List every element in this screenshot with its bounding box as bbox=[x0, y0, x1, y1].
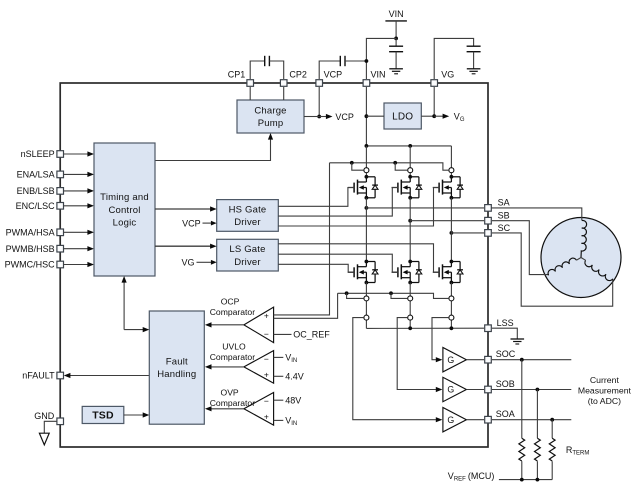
wire VCP pin down bbox=[317, 87, 321, 118]
block Timing and Control Logic bbox=[94, 143, 155, 276]
wire OC_REF bbox=[274, 330, 331, 340]
amplifier G (SOC) bbox=[443, 348, 467, 372]
wire ENA/LSA to timing bbox=[64, 172, 94, 177]
wire LS source column C bbox=[450, 283, 452, 329]
wire GND to ground bbox=[44, 421, 57, 433]
svg-text:VCP: VCP bbox=[324, 70, 343, 80]
pin ENC/LSC bbox=[16, 201, 64, 211]
svg-text:VIN: VIN bbox=[389, 9, 404, 19]
svg-text:OCP: OCP bbox=[221, 297, 240, 307]
transistor Q2 (HS B) bbox=[392, 175, 422, 200]
wire LS gate C bbox=[278, 244, 439, 272]
pin GND bbox=[34, 411, 63, 425]
wire LSS to ground bbox=[492, 328, 517, 339]
pin PWMB/HSB bbox=[6, 244, 64, 254]
label OVP Comparator bbox=[210, 388, 256, 409]
svg-text:ENC/LSC: ENC/LSC bbox=[16, 201, 56, 211]
node SB junction bbox=[408, 219, 412, 223]
wire LSS bus bbox=[366, 326, 484, 330]
terminal GHB bbox=[408, 168, 413, 173]
svg-text:TSD: TSD bbox=[92, 410, 114, 422]
svg-text:+: + bbox=[264, 369, 269, 379]
wire drain drop A bbox=[365, 146, 367, 177]
wire SOC out bbox=[492, 358, 571, 362]
svg-text:SOC: SOC bbox=[496, 349, 516, 359]
capacitor C-VG bbox=[467, 46, 481, 69]
label RTERM bbox=[566, 445, 590, 457]
wire amp SOC to pin bbox=[466, 359, 484, 361]
IC boundary bbox=[60, 83, 488, 447]
wire ENB/LSB to timing bbox=[64, 188, 94, 193]
svg-text:VCP: VCP bbox=[335, 112, 354, 122]
pin nSLEEP bbox=[21, 149, 64, 159]
wire LS source column A bbox=[365, 283, 367, 329]
block LDO bbox=[384, 103, 421, 129]
wire CP1 to flying cap bbox=[250, 61, 265, 79]
svg-text:GND: GND bbox=[34, 411, 55, 421]
wire VIN to LDO bbox=[366, 115, 384, 117]
pin SC bbox=[485, 223, 511, 236]
label Current Measurement bbox=[578, 375, 632, 406]
terminal GHA bbox=[364, 168, 369, 173]
wire TSD to fault bbox=[124, 412, 150, 417]
wire nSLEEP to timing bbox=[64, 151, 94, 156]
wire HS sense bus bbox=[330, 161, 449, 170]
capacitor C-VIN bbox=[389, 38, 403, 68]
resistor R1 bbox=[519, 360, 525, 480]
pin SB bbox=[485, 210, 510, 224]
motor winding left bbox=[548, 258, 581, 276]
wire timing to charge pump bbox=[155, 133, 273, 161]
wire SC row bbox=[451, 232, 484, 234]
resistor R2 bbox=[535, 390, 541, 480]
svg-text:Comparator: Comparator bbox=[210, 307, 256, 317]
svg-text:−: − bbox=[264, 329, 269, 339]
wire PWMC/HSC to timing bbox=[64, 262, 94, 267]
wire timing to LS driver bbox=[155, 244, 217, 249]
transistor Q6 (LS C) bbox=[433, 260, 463, 285]
wire drain drop C bbox=[450, 146, 452, 177]
block Fault Handling bbox=[149, 311, 204, 424]
transistor Q1 (HS A) bbox=[348, 175, 378, 200]
svg-text:Driver: Driver bbox=[234, 257, 261, 268]
svg-text:LDO: LDO bbox=[392, 112, 413, 123]
wire cap to VIN line bbox=[345, 59, 368, 63]
block Charge Pump bbox=[237, 100, 304, 133]
label VREF (MCU) bbox=[448, 471, 495, 483]
terminal GLC bbox=[449, 296, 454, 301]
wire VG pin to cap bbox=[434, 38, 473, 79]
svg-text:ENB/LSB: ENB/LSB bbox=[17, 186, 55, 196]
wire UVLO- VIN bbox=[274, 353, 298, 365]
transistor Q5 (LS B) bbox=[392, 260, 422, 285]
wire PWMA/HSA to timing bbox=[64, 230, 94, 235]
wire LS gate A bbox=[278, 264, 354, 272]
wire PWMB/HSB to timing bbox=[64, 246, 94, 251]
wire LS gate B bbox=[278, 254, 398, 272]
wire SB row bbox=[410, 220, 484, 222]
amplifier G (SOA) bbox=[443, 408, 467, 432]
svg-text:Current: Current bbox=[590, 375, 620, 385]
amplifier G (SOB) bbox=[443, 377, 467, 401]
ground (VG cap) bbox=[467, 69, 481, 74]
svg-text:PWMA/HSA: PWMA/HSA bbox=[6, 227, 55, 237]
wire HS gate B bbox=[278, 188, 398, 217]
wire SC to motor bbox=[492, 233, 613, 306]
capacitor C-FLY bbox=[265, 56, 270, 66]
block LS Gate Driver bbox=[217, 239, 279, 271]
wire LS sense bus bbox=[338, 291, 449, 298]
resistor R3 (RTERM) bbox=[549, 420, 555, 480]
op-amp UVLO comparator bbox=[205, 351, 274, 384]
pin VG bbox=[431, 70, 454, 87]
pin ENB/LSB bbox=[17, 186, 64, 196]
svg-text:Comparator: Comparator bbox=[210, 398, 256, 408]
pin VIN bbox=[363, 70, 385, 87]
op-amp OVP comparator bbox=[205, 393, 274, 426]
pin SOA bbox=[485, 409, 515, 423]
svg-text:4.4V: 4.4V bbox=[285, 372, 304, 382]
svg-text:CP1: CP1 bbox=[228, 70, 246, 80]
label UVLO Comparator bbox=[210, 342, 256, 363]
block HS Gate Driver bbox=[217, 200, 279, 232]
svg-text:Fault: Fault bbox=[166, 357, 188, 368]
wire flying cap to CP2 bbox=[269, 61, 283, 79]
wire VIN pin down bbox=[365, 87, 369, 146]
svg-text:VCP: VCP bbox=[182, 218, 201, 228]
block TSD bbox=[82, 406, 124, 423]
wire charge pump VCP output bbox=[304, 112, 354, 122]
svg-text:nFAULT: nFAULT bbox=[22, 371, 55, 381]
svg-text:−: − bbox=[264, 396, 269, 406]
motor body bbox=[541, 218, 621, 298]
wire SOA out bbox=[492, 418, 571, 422]
wire VIN rail bbox=[365, 144, 452, 148]
svg-text:+: + bbox=[264, 411, 269, 421]
node SC junction bbox=[450, 231, 454, 235]
svg-text:HS Gate: HS Gate bbox=[229, 204, 267, 215]
svg-text:(MCU): (MCU) bbox=[465, 471, 494, 481]
wire SOB out bbox=[492, 388, 571, 392]
wire timing to HS driver bbox=[155, 206, 217, 211]
wire CP1 to charge pump bbox=[249, 87, 251, 100]
wire phase C column bbox=[450, 198, 452, 262]
terminal GLB bbox=[408, 296, 413, 301]
svg-text:OC_REF: OC_REF bbox=[293, 330, 330, 340]
label VG input bbox=[181, 258, 216, 268]
svg-text:nSLEEP: nSLEEP bbox=[21, 149, 55, 159]
ground (VIN cap) bbox=[389, 69, 403, 74]
wire OVP- 48V bbox=[274, 395, 302, 405]
wire phase B column bbox=[409, 198, 411, 262]
VIN supply rail bbox=[385, 9, 407, 41]
svg-text:ENA/LSA: ENA/LSA bbox=[17, 170, 55, 180]
motor winding right bbox=[581, 258, 613, 281]
wire OCP+ to HS sense bus bbox=[274, 163, 330, 315]
pin SA bbox=[485, 198, 510, 212]
svg-text:SOA: SOA bbox=[496, 409, 515, 419]
wire amp SOA to pin bbox=[466, 419, 484, 421]
wire HS sense tap A bbox=[352, 163, 364, 170]
svg-text:Handling: Handling bbox=[157, 369, 196, 380]
label OCP Comparator bbox=[210, 297, 256, 318]
svg-text:(to ADC): (to ADC) bbox=[588, 396, 621, 406]
wire sense A to amp bbox=[353, 318, 443, 423]
wire CP2 to charge pump bbox=[283, 87, 285, 100]
svg-text:Comparator: Comparator bbox=[210, 352, 256, 362]
node SA junction bbox=[365, 206, 369, 210]
svg-text:Pump: Pump bbox=[258, 118, 284, 129]
pin VCP bbox=[316, 70, 342, 87]
wire phase A column bbox=[365, 198, 367, 262]
svg-text:SOB: SOB bbox=[496, 379, 515, 389]
wire VG pin down bbox=[433, 87, 435, 116]
svg-text:G: G bbox=[447, 355, 454, 365]
capacitor C-VCP bbox=[340, 56, 345, 66]
wire HS gate A bbox=[278, 188, 354, 207]
wire ENC/LSC to timing bbox=[64, 203, 94, 208]
wire LS sense tap A bbox=[347, 293, 364, 298]
op-amp OCP comparator bbox=[205, 307, 274, 343]
svg-text:OVP: OVP bbox=[221, 388, 239, 398]
ground (LSS) bbox=[511, 339, 525, 344]
pin PWMC/HSC bbox=[5, 260, 64, 270]
svg-text:Logic: Logic bbox=[113, 217, 137, 228]
label VCP input bbox=[182, 218, 217, 228]
terminal GHC bbox=[449, 168, 454, 173]
wire SA row bbox=[366, 207, 484, 209]
terminal SPB bbox=[408, 315, 413, 320]
svg-text:−: − bbox=[264, 354, 269, 364]
svg-text:PWMC/HSC: PWMC/HSC bbox=[5, 260, 55, 270]
motor winding top bbox=[581, 220, 587, 257]
svg-text:48V: 48V bbox=[285, 395, 301, 405]
wire LS sense tap B bbox=[391, 293, 408, 298]
svg-text:Charge: Charge bbox=[254, 106, 286, 117]
wire UVLO+ 4.4V bbox=[274, 372, 304, 382]
svg-text:CP2: CP2 bbox=[289, 70, 307, 80]
svg-text:VG: VG bbox=[441, 70, 454, 80]
wire LS source column B bbox=[409, 283, 411, 329]
pin PWMA/HSA bbox=[6, 227, 64, 237]
wire sense C to amp bbox=[432, 318, 449, 363]
wire HS sense tap B bbox=[395, 163, 408, 170]
svg-text:Measurement: Measurement bbox=[578, 386, 632, 396]
svg-text:SB: SB bbox=[498, 210, 510, 220]
pin LSS bbox=[485, 318, 514, 332]
svg-text:G: G bbox=[447, 385, 454, 395]
svg-text:SA: SA bbox=[498, 198, 510, 208]
pin CP1 bbox=[228, 70, 254, 87]
pin ENA/LSA bbox=[17, 170, 64, 180]
wire fault to timing bbox=[122, 276, 150, 332]
wire amp SOB to pin bbox=[466, 389, 484, 391]
transistor Q3 (HS C) bbox=[433, 175, 463, 200]
svg-text:UVLO: UVLO bbox=[222, 342, 246, 352]
svg-text:Control: Control bbox=[108, 205, 140, 216]
pin nFAULT bbox=[22, 371, 63, 381]
ground (GND pin) bbox=[39, 433, 49, 445]
svg-text:LS Gate: LS Gate bbox=[229, 244, 265, 255]
pin SOC bbox=[485, 349, 516, 363]
wire VIN supply to VIN pin bbox=[366, 38, 396, 79]
wire HS gate C bbox=[278, 188, 439, 227]
svg-text:LSS: LSS bbox=[497, 318, 514, 328]
wire drain drop B bbox=[409, 146, 411, 177]
terminal GLA bbox=[364, 296, 369, 301]
wire fault to nFAULT bbox=[64, 373, 150, 378]
svg-text:SC: SC bbox=[498, 223, 511, 233]
wire sense B to amp bbox=[397, 318, 442, 393]
svg-text:Timing and: Timing and bbox=[100, 192, 149, 203]
wire SA to motor bbox=[492, 208, 582, 221]
wire OCP+ to LS sense bus bbox=[274, 293, 338, 318]
wire VCP pin to cap bbox=[319, 61, 340, 79]
transistor Q4 (LS A) bbox=[348, 260, 378, 285]
wire SB to motor bbox=[492, 221, 549, 275]
wire OVP+ VIN bbox=[274, 416, 298, 428]
svg-text:G: G bbox=[447, 415, 454, 425]
wire LDO output VG bbox=[421, 111, 465, 123]
svg-text:VG: VG bbox=[181, 258, 194, 268]
wire VREF bus bbox=[499, 478, 552, 482]
terminal SPA bbox=[364, 315, 369, 320]
pin CP2 bbox=[280, 70, 307, 87]
terminal SPC bbox=[449, 315, 454, 320]
pin SOB bbox=[485, 379, 515, 393]
svg-text:Driver: Driver bbox=[234, 217, 261, 228]
svg-text:VIN: VIN bbox=[371, 70, 386, 80]
svg-text:PWMB/HSB: PWMB/HSB bbox=[6, 244, 55, 254]
svg-text:+: + bbox=[264, 310, 269, 320]
